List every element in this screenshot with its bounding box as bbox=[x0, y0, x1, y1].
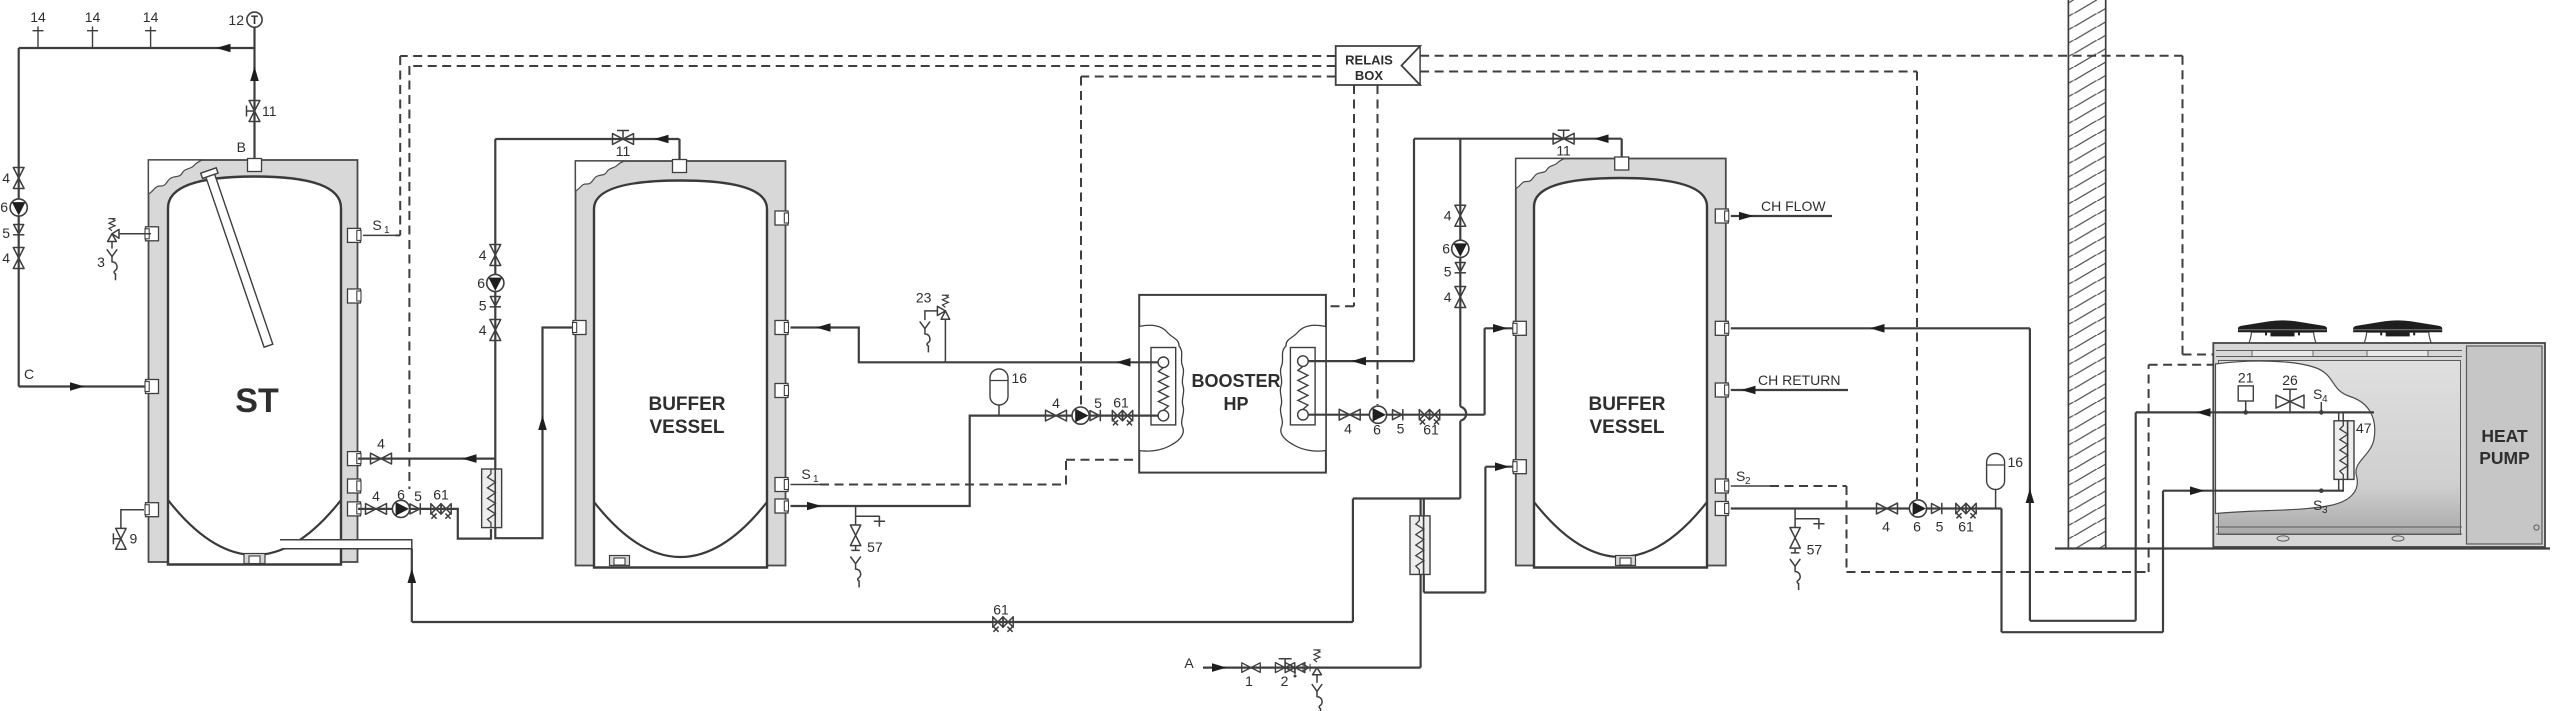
balancing valve 61 on BV2 bottom line bbox=[1956, 503, 1976, 518]
arrow: flow left into booster bbox=[1352, 357, 1367, 366]
svg-text:BUFFER: BUFFER bbox=[648, 394, 725, 415]
svg-text:CH FLOW: CH FLOW bbox=[1761, 198, 1826, 214]
HP outer cabinet bbox=[2213, 343, 2545, 547]
balancing valve 61 on long return line bbox=[993, 617, 1013, 632]
BV1 jacket bbox=[576, 161, 786, 566]
open arrow + valve 4 on booster right line bbox=[1339, 409, 1360, 420]
wire: BV1 to booster upper (return) bbox=[791, 328, 1159, 363]
wire: relais to ST sensor S1 bbox=[396, 56, 1336, 235]
svg-text:ST: ST bbox=[235, 382, 279, 420]
valve 11 on BV2 top (handle up) bbox=[1553, 133, 1574, 144]
svg-text:9: 9 bbox=[130, 531, 138, 547]
svg-text:61: 61 bbox=[1113, 395, 1129, 411]
svg-text:11: 11 bbox=[616, 143, 631, 159]
svg-text:14: 14 bbox=[143, 9, 159, 25]
svg-text:4: 4 bbox=[479, 322, 487, 338]
svg-text:4: 4 bbox=[2, 250, 10, 266]
balancing valve 61 on booster right line bbox=[1419, 410, 1439, 425]
svg-text:6: 6 bbox=[1442, 241, 1450, 257]
mixing valve 26 bbox=[2276, 389, 2304, 412]
sensor S2 stub bbox=[1731, 485, 1770, 487]
wire: CH FLOW line bbox=[1731, 215, 1832, 217]
svg-text:6: 6 bbox=[1373, 422, 1381, 438]
svg-text:21: 21 bbox=[2238, 370, 2254, 386]
wire: BV1 top line bbox=[495, 139, 679, 162]
wire: relais to heat pump (top) bbox=[1420, 56, 2214, 355]
relief valve 3 at ST left bbox=[97, 219, 151, 281]
sensor S1 stub at BV1 bbox=[791, 484, 821, 486]
BV1 torn insulation corner bbox=[576, 161, 625, 191]
wire: ST pump line to HX1 (lower) bbox=[358, 509, 491, 539]
ground line bbox=[2055, 547, 2550, 549]
expansion vessel 16 stub at HP line bbox=[1995, 490, 1997, 509]
ST port: right S1 bbox=[348, 228, 362, 242]
check valve on A line bbox=[1303, 664, 1310, 672]
arrow: CH flow right bbox=[1739, 212, 1754, 221]
svg-text:26: 26 bbox=[2282, 372, 2298, 388]
svg-text:14: 14 bbox=[30, 9, 46, 25]
svg-text:A: A bbox=[1184, 655, 1194, 671]
wire: ST bottom outlet pipe bbox=[280, 540, 412, 549]
wire: relais to booster right pump 6 bbox=[1377, 85, 1379, 405]
wire: relais to BV2 pump 6 bbox=[1420, 72, 1917, 500]
BV1 port: right S1 sensor bbox=[775, 478, 789, 492]
thermometer 12 circle T bbox=[247, 12, 262, 27]
svg-text:1: 1 bbox=[1245, 673, 1253, 689]
booster right water wing bbox=[1280, 325, 1326, 451]
arrow: flow left into ST bbox=[462, 454, 477, 463]
BV2 bottom dome curve bbox=[1534, 502, 1707, 557]
wire: booster right bottom pump line to BV2 upper-left port bbox=[1308, 328, 1517, 414]
valve 4 on HX return bbox=[371, 453, 392, 464]
booster left coil bbox=[1151, 348, 1176, 425]
arrow: flow right into BV2 lower port bbox=[1495, 462, 1510, 471]
arrow: flow right from BV1 bbox=[807, 502, 822, 511]
svg-text:BOX: BOX bbox=[1355, 68, 1384, 83]
wire: BV1 bottom to booster pump line bbox=[791, 416, 1159, 506]
arrow: ST top flow up bbox=[250, 67, 259, 82]
BV2 port: top bbox=[1615, 157, 1629, 170]
svg-text:S: S bbox=[1736, 468, 1745, 484]
wire: booster left coil stubs bbox=[1139, 362, 1158, 415]
ST bottom dome curve bbox=[168, 500, 341, 555]
sensor 21 box bbox=[2238, 386, 2253, 401]
BV2 inner vessel bbox=[1534, 178, 1707, 568]
ST port: right flange (unused low) bbox=[348, 479, 362, 493]
drain assembly 57 at BV1 bbox=[850, 506, 885, 588]
BV2 port: right S2 sensor bbox=[1715, 479, 1729, 493]
HP right door panel bbox=[2467, 346, 2543, 544]
svg-text:3: 3 bbox=[97, 254, 105, 270]
check valve 5 on BV1 riser bbox=[490, 297, 501, 307]
svg-text:6: 6 bbox=[397, 487, 405, 503]
pump 6 on booster right line bbox=[1369, 406, 1386, 423]
svg-text:16: 16 bbox=[1012, 370, 1028, 386]
svg-text:4: 4 bbox=[1052, 395, 1060, 411]
ST port: left relief 3 bbox=[145, 227, 159, 241]
arrow: flow up to BV1 port bbox=[538, 416, 547, 431]
valve 1 on A line bbox=[1242, 663, 1260, 673]
vent tick 14 (2) bbox=[87, 27, 98, 49]
svg-text:1: 1 bbox=[813, 474, 819, 485]
BV1 port: right to booster bbox=[775, 321, 789, 335]
wire: HP supply back to BV2 bbox=[2030, 328, 2214, 621]
check valve 5 on ST pump line bbox=[410, 503, 420, 514]
wire: vent header top-left bbox=[19, 47, 255, 49]
svg-text:23: 23 bbox=[916, 289, 932, 305]
arrow: flow up to ST bottom bbox=[408, 569, 417, 584]
wire: CH RETURN line bbox=[1731, 389, 1848, 391]
svg-text:S: S bbox=[801, 466, 810, 482]
ST bottom flange bbox=[244, 554, 265, 564]
svg-text:5: 5 bbox=[1444, 264, 1452, 280]
valve 4 on BV1 riser (bottom) bbox=[490, 320, 501, 341]
BV2 port: right CH flow bbox=[1715, 209, 1729, 223]
svg-text:16: 16 bbox=[2008, 454, 2024, 470]
sensor S1 stub at ST bbox=[363, 234, 396, 236]
BV2 port: right HP return bbox=[1715, 321, 1729, 335]
BV2 port: right CH return bbox=[1715, 383, 1729, 397]
expansion vessel 16 stub bbox=[998, 404, 1000, 416]
svg-text:4: 4 bbox=[479, 247, 487, 263]
HP white water blob bbox=[2216, 361, 2375, 513]
BV2 port: right bottom bbox=[1715, 502, 1729, 516]
svg-text:4: 4 bbox=[1444, 208, 1452, 224]
arrow: flow right into BV2 upper port bbox=[1493, 324, 1508, 333]
svg-text:4: 4 bbox=[1344, 421, 1352, 437]
arrow: A line flow right bbox=[1212, 663, 1227, 672]
BV1 bottom flange bbox=[610, 556, 630, 566]
BV1 port: right mid flange bbox=[775, 384, 789, 398]
arrow: BV1 top flow left bbox=[654, 135, 669, 144]
ST port: top B bbox=[248, 159, 262, 172]
BV1 inner vessel bbox=[594, 181, 767, 568]
svg-text:5: 5 bbox=[479, 298, 487, 314]
svg-text:12: 12 bbox=[228, 12, 244, 28]
wire: ST right to HX1 (upper) bbox=[358, 458, 495, 460]
svg-text:61: 61 bbox=[433, 487, 449, 503]
ST port: left C inlet bbox=[145, 380, 159, 394]
second bowtie of filling set 2 bbox=[1285, 663, 1305, 673]
svg-text:5: 5 bbox=[414, 488, 422, 504]
wire: HX2 bottom left to A line bbox=[1419, 574, 1421, 667]
svg-text:PUMP: PUMP bbox=[2479, 448, 2530, 468]
valve 4 on BV1 riser (top) bbox=[490, 245, 501, 266]
svg-text:11: 11 bbox=[1556, 143, 1571, 159]
svg-text:BOOSTER: BOOSTER bbox=[1191, 371, 1280, 391]
wire: HP to BV2 return line bbox=[1731, 327, 2030, 329]
svg-text:BUFFER: BUFFER bbox=[1588, 394, 1665, 415]
svg-text:4: 4 bbox=[372, 488, 380, 504]
drain valve 9 at ST bottom left bbox=[121, 510, 144, 529]
svg-text:6: 6 bbox=[477, 275, 485, 291]
svg-text:4: 4 bbox=[1882, 519, 1890, 535]
valve 11 on ST top riser (handle left) bbox=[249, 101, 260, 122]
arrow: flow left out of HP bbox=[2196, 408, 2211, 417]
svg-text:S: S bbox=[372, 217, 381, 233]
wire: riser corner to long return line bbox=[412, 499, 1461, 623]
svg-text:S: S bbox=[2313, 386, 2322, 402]
booster left water wing bbox=[1139, 325, 1184, 451]
svg-text:1: 1 bbox=[384, 225, 390, 236]
arrow: C line flow right bbox=[70, 382, 85, 391]
check valve 5 on BV2 riser bbox=[1455, 263, 1466, 273]
svg-text:2: 2 bbox=[1745, 476, 1751, 487]
svg-text:5: 5 bbox=[1936, 519, 1944, 535]
pump 6 on BV2 bottom line bbox=[1909, 500, 1926, 517]
wire: BV2 sensor S2 to heat pump bbox=[1770, 365, 2214, 572]
svg-text:4: 4 bbox=[1444, 289, 1452, 305]
svg-text:4: 4 bbox=[377, 436, 385, 452]
HP internal lower pipe bbox=[2214, 490, 2344, 492]
check valve 5 on booster left line bbox=[1090, 410, 1100, 421]
svg-text:3: 3 bbox=[2322, 505, 2328, 516]
ST port: right pump line bbox=[348, 502, 362, 516]
expansion vessel 16 at HP line bbox=[1987, 454, 2005, 490]
svg-text:61: 61 bbox=[993, 602, 1009, 618]
wire: BV2 riser with valves (hop over pump line) bbox=[1460, 139, 1466, 499]
arrow: CH return left bbox=[1741, 386, 1756, 395]
pump 6 on BV1 riser (down) bbox=[487, 274, 504, 291]
wire: ST top port B riser bbox=[253, 27, 255, 160]
wire: A supply line bbox=[1203, 666, 1421, 668]
HP fan 1 bbox=[2238, 320, 2327, 344]
wire: C inlet line into ST bbox=[19, 385, 152, 387]
svg-text:C: C bbox=[24, 366, 34, 382]
BV2 port: left lower bbox=[1513, 460, 1527, 474]
wire: HX1 top riser to BV1 valves bbox=[494, 139, 496, 469]
valve 4 on booster left line bbox=[1046, 410, 1067, 421]
HP bottom rail bbox=[2216, 527, 2462, 534]
valve 11 on BV1 top (handle up) bbox=[613, 134, 634, 145]
booster right coil bbox=[1290, 348, 1315, 425]
svg-text:6: 6 bbox=[1913, 519, 1921, 535]
arrow: BV2 top flow left bbox=[1594, 134, 1609, 143]
valve 4 on BV2 bottom line bbox=[1877, 503, 1898, 514]
BV2 port: left upper bbox=[1513, 321, 1527, 335]
wire: BV1 sensor S1 to booster bbox=[820, 460, 1138, 485]
expansion vessel 16 bbox=[990, 369, 1008, 405]
pump 6 on BV2 riser (down) bbox=[1452, 240, 1469, 257]
svg-text:5: 5 bbox=[1094, 395, 1102, 411]
valve 4 on left riser bbox=[13, 168, 24, 189]
svg-text:61: 61 bbox=[1958, 519, 1974, 535]
arrow: vent header flow left bbox=[216, 44, 231, 53]
valve 2 with handle on A line bbox=[1275, 663, 1294, 673]
wire: left riser with valves bbox=[18, 48, 20, 387]
svg-text:VESSEL: VESSEL bbox=[650, 417, 725, 438]
valve 4 on BV2 riser top bbox=[1455, 205, 1466, 226]
svg-text:5: 5 bbox=[1397, 421, 1405, 437]
svg-text:T: T bbox=[251, 15, 258, 27]
svg-text:61: 61 bbox=[1423, 422, 1439, 438]
ST torn insulation corner bbox=[149, 160, 203, 194]
svg-text:S: S bbox=[2313, 497, 2322, 513]
svg-text:2: 2 bbox=[1281, 673, 1289, 689]
wire: relais to booster left pump 6 bbox=[1081, 77, 1336, 407]
arrow: flow left into booster line bbox=[1116, 358, 1131, 367]
HP internal upper pipe bbox=[2214, 411, 2374, 413]
BV2 bottom flange bbox=[1616, 556, 1636, 566]
check valve 5 on left riser bbox=[13, 225, 24, 235]
svg-text:VESSEL: VESSEL bbox=[1590, 417, 1665, 438]
svg-text:5: 5 bbox=[2, 225, 10, 241]
pump 6 on ST pump line bbox=[392, 500, 409, 517]
svg-text:HP: HP bbox=[1223, 394, 1248, 414]
condenser HX 47 bbox=[2334, 421, 2354, 480]
balancing valve 61 on booster left line bbox=[1112, 410, 1132, 425]
heat exchanger HX2 bbox=[1410, 516, 1430, 575]
vent tick 14 (3) bbox=[145, 27, 156, 49]
booster box bbox=[1139, 295, 1326, 473]
wire: BV2 bottom line to HP bbox=[1731, 491, 2214, 633]
HP fan 2 bbox=[2353, 320, 2442, 344]
svg-text:CH RETURN: CH RETURN bbox=[1758, 372, 1840, 388]
arrow: flow left into BV2 bbox=[1870, 324, 1885, 333]
valve 4 on ST pump line bbox=[366, 504, 387, 515]
pump 6 on booster left line bbox=[1072, 407, 1089, 424]
ST tank jacket bbox=[149, 160, 358, 562]
safety valve 23 bbox=[916, 289, 950, 362]
pump 6 on left riser (down) bbox=[10, 199, 27, 216]
arrow: flow right into HP bbox=[2190, 486, 2205, 495]
BV1 port: top bbox=[673, 160, 687, 173]
wire: HX2 bottom right to BV2 lower-left port bbox=[1424, 467, 1517, 593]
BV2 jacket bbox=[1516, 159, 1726, 566]
BV1 port: right bottom line bbox=[775, 499, 789, 513]
drain assembly 57 at BV2 bbox=[1790, 509, 1825, 591]
svg-text:11: 11 bbox=[262, 103, 277, 119]
BV1 port: left bbox=[573, 321, 587, 335]
wire: HX2 top pipes bbox=[1421, 499, 1424, 517]
ST inner vessel bbox=[168, 177, 341, 565]
balancing valve 61 on ST pump line bbox=[431, 504, 451, 519]
svg-text:4: 4 bbox=[2322, 394, 2328, 405]
HP interior panel bbox=[2219, 361, 2461, 535]
wall left edge bbox=[2068, 0, 2105, 549]
svg-text:47: 47 bbox=[2356, 420, 2372, 436]
svg-text:14: 14 bbox=[85, 9, 101, 25]
wire: booster right top to BV2 top bbox=[1308, 139, 1622, 361]
ST port: left drain 9 bbox=[145, 503, 159, 517]
BV1 port: right upper flange bbox=[775, 211, 789, 225]
heat exchanger HX1 bbox=[482, 469, 502, 528]
svg-text:4: 4 bbox=[2, 170, 10, 186]
check valve 5 on booster right line bbox=[1393, 409, 1403, 420]
valve 4 on BV2 riser bottom bbox=[1455, 287, 1466, 308]
arrow: flow up to BV2 bbox=[2026, 489, 2035, 504]
svg-text:6: 6 bbox=[0, 199, 8, 215]
relief valve with funnel on A line bbox=[1312, 650, 1322, 711]
svg-text:B: B bbox=[237, 139, 246, 155]
wire: relais to ST pump 6 bbox=[409, 66, 1335, 489]
check valve 5 on BV2 bottom line bbox=[1932, 503, 1942, 514]
ST port: right flange (unused) bbox=[348, 289, 362, 303]
wire: HX1 bottom to BV1 left port bbox=[495, 328, 577, 539]
ST immersion tube (diagonal) bbox=[201, 168, 277, 349]
arrow: flow left into BV1 bbox=[816, 323, 831, 332]
valve 4 lower on left riser bbox=[13, 248, 24, 269]
svg-text:RELAIS: RELAIS bbox=[1345, 53, 1393, 68]
ST port: right to HX return bbox=[348, 452, 362, 466]
vent tick 14 (1) bbox=[33, 27, 44, 49]
wire: relais to booster box top bbox=[1327, 85, 1354, 306]
BV2 torn insulation corner bbox=[1516, 159, 1565, 189]
HP top rail bbox=[2216, 351, 2462, 357]
svg-text:HEAT: HEAT bbox=[2481, 426, 2528, 446]
BV1 bottom dome curve bbox=[594, 502, 767, 557]
relais box body bbox=[1336, 46, 1420, 85]
